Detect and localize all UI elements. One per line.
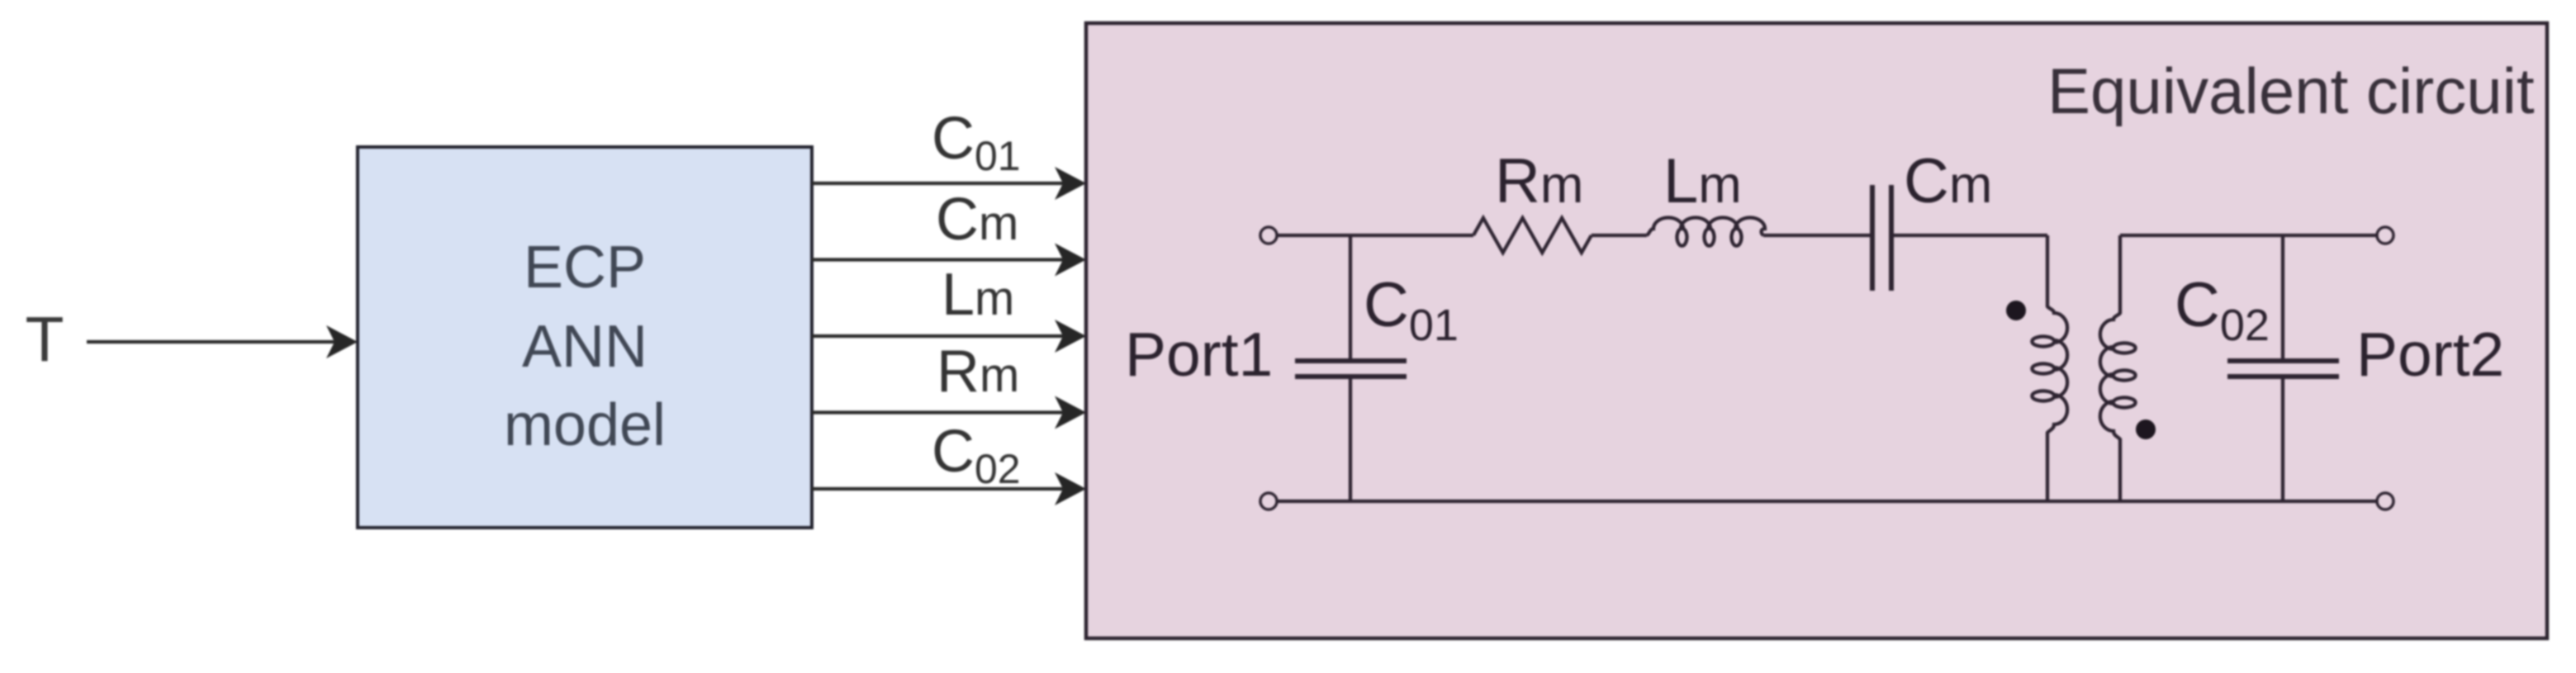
svg-text:model: model <box>504 392 666 458</box>
svg-text:ECP: ECP <box>524 235 646 301</box>
svg-text:Equivalent circuit: Equivalent circuit <box>2047 55 2535 127</box>
svg-text:Lm: Lm <box>942 262 1014 328</box>
svg-text:ANN: ANN <box>522 314 648 380</box>
svg-text:Cm: Cm <box>1904 146 1992 216</box>
svg-text:Rm: Rm <box>937 339 1019 405</box>
svg-text:Lm: Lm <box>1663 146 1742 216</box>
svg-text:Cm: Cm <box>936 187 1018 253</box>
svg-text:Port2: Port2 <box>2356 320 2504 389</box>
svg-text:Rm: Rm <box>1495 146 1583 216</box>
svg-text:T: T <box>25 304 64 375</box>
svg-text:Port1: Port1 <box>1125 320 1273 389</box>
